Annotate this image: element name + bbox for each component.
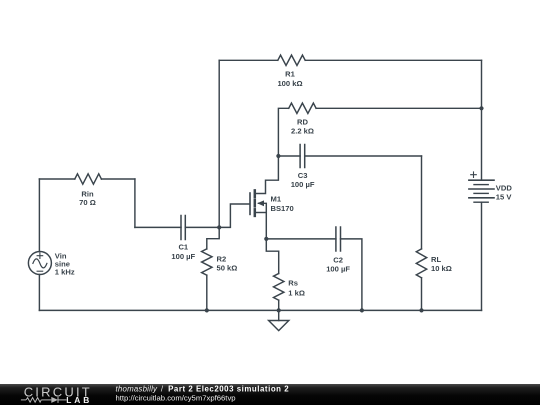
wire Vin bottom lead: [38, 275, 40, 311]
svg-text:70 Ω: 70 Ω: [79, 198, 96, 207]
svg-text:BS170: BS170: [271, 204, 294, 213]
svg-text:100 µF: 100 µF: [171, 252, 195, 261]
node RL bottom junction: [419, 308, 423, 312]
wire R1 top left: [219, 59, 278, 61]
svg-text:LAB: LAB: [66, 395, 90, 405]
wire C3 to RL drop: [305, 155, 422, 157]
wire C2 right to ground rail: [341, 239, 362, 311]
svg-text:1 kΩ: 1 kΩ: [288, 288, 305, 297]
transistor M1: [250, 156, 278, 239]
capacitor C2: [336, 227, 341, 251]
svg-text:2.2 kΩ: 2.2 kΩ: [291, 126, 314, 135]
svg-text:R2: R2: [217, 255, 227, 264]
wire R1 left vertical: [218, 60, 220, 227]
resistor R1: [278, 55, 305, 65]
svg-text:thomasbilly / Part 2 Elec2003: thomasbilly / Part 2 Elec2003 simulation…: [116, 384, 290, 393]
resistor Rin: [75, 174, 102, 184]
svg-text:10 kΩ: 10 kΩ: [431, 264, 452, 273]
node drain junction: [276, 154, 280, 158]
svg-text:RL: RL: [431, 255, 441, 264]
capacitor C1: [181, 216, 185, 240]
resistor RL: [416, 249, 426, 278]
logo doodle wire: [21, 397, 67, 403]
wire top right corner down: [481, 60, 483, 108]
resistor Rs: [274, 274, 284, 301]
wire gate node to gate: [219, 204, 249, 227]
wire RD left corner: [278, 108, 288, 156]
svg-text:Rs: Rs: [288, 279, 298, 288]
svg-text:C1: C1: [178, 242, 188, 251]
svg-text:R1: R1: [285, 70, 295, 79]
wire corner down to C1 level: [134, 179, 136, 227]
battery VDD: [469, 172, 494, 202]
wire RL top lead: [421, 156, 423, 249]
wire Rs bottom lead: [278, 300, 280, 310]
svg-text:M1: M1: [271, 194, 282, 203]
resistor RD: [289, 103, 316, 113]
node VDD junction: [479, 106, 483, 110]
wire source to C2: [266, 238, 336, 240]
wire VDD bottom lead: [481, 202, 483, 310]
wire gate node to R2: [207, 227, 219, 249]
svg-text:100 kΩ: 100 kΩ: [277, 79, 302, 88]
node source junction: [264, 237, 268, 241]
wire R1 right rail: [305, 59, 481, 61]
svg-text:1 kHz: 1 kHz: [55, 268, 75, 277]
capacitor C3: [300, 145, 305, 168]
node Rs bottom junction: [277, 308, 281, 312]
source Vin: [28, 252, 51, 275]
wire Vin to Rin: [39, 178, 74, 180]
wire VDD top lead: [481, 108, 483, 180]
wire source to Rs: [266, 239, 278, 274]
ground: [269, 310, 289, 330]
wire bottom rail: [39, 309, 481, 311]
node C2 bottom junction: [360, 308, 364, 312]
wire Vin top lead: [38, 179, 40, 252]
node R2 bottom junction: [205, 308, 209, 312]
wire to C1 left plate: [135, 226, 181, 228]
svg-text:C2: C2: [333, 256, 343, 265]
svg-text:50 kΩ: 50 kΩ: [217, 264, 238, 273]
svg-text:15 V: 15 V: [496, 192, 513, 201]
wire RL bottom lead: [421, 278, 423, 311]
wire drain node to C3: [278, 155, 300, 157]
wire R2 bottom lead: [206, 275, 208, 310]
wire C1 to gate node: [185, 226, 219, 228]
node gate junction: [217, 225, 221, 229]
svg-text:VDD: VDD: [496, 184, 513, 193]
svg-text:100 µF: 100 µF: [326, 265, 350, 274]
svg-text:http://circuitlab.com/cy5m7xpf: http://circuitlab.com/cy5m7xpf66tvp: [116, 394, 236, 403]
resistor R2: [202, 249, 212, 275]
wire Rin to corner: [101, 178, 134, 180]
svg-text:100 µF: 100 µF: [291, 180, 315, 189]
wire RD right rail: [316, 107, 481, 109]
